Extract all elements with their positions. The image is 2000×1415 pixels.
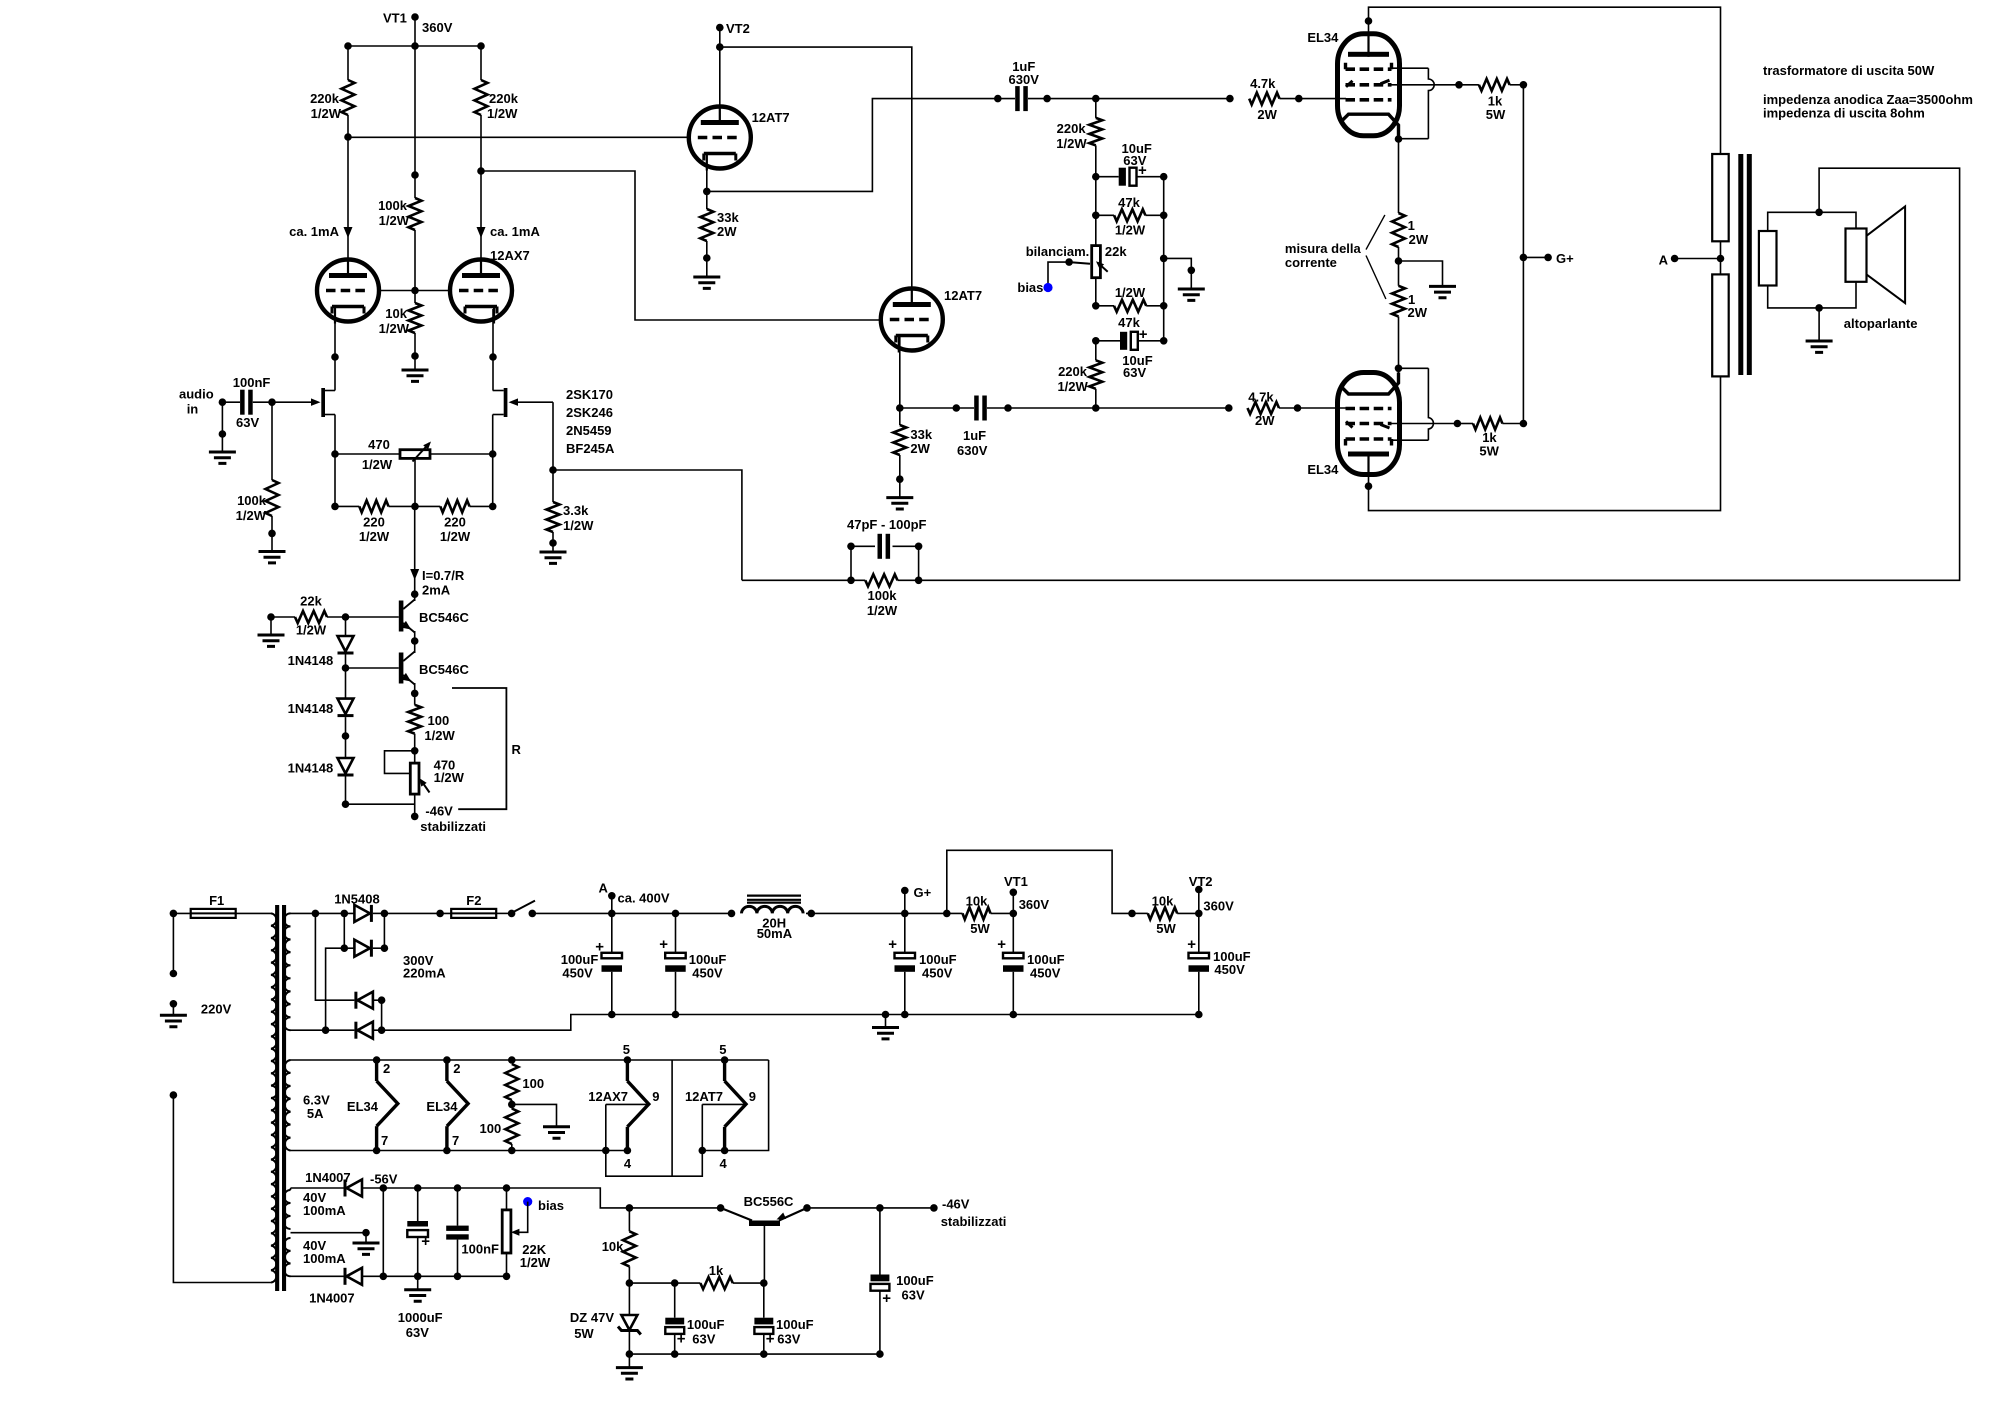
node loop-rail left: [602, 1147, 610, 1155]
wire to EL34-2 g1: [1298, 407, 1347, 409]
node G+ takeoff: [1520, 254, 1528, 262]
svg-text:audio: audio: [179, 387, 214, 402]
resistor 220k right: [480, 46, 482, 80]
svg-text:BF245A: BF245A: [566, 441, 615, 456]
svg-text:12AX7: 12AX7: [490, 248, 530, 263]
wire g2 lower: [1392, 423, 1458, 425]
node G+ psu: [901, 910, 909, 918]
svg-text:+: +: [997, 936, 1006, 953]
svg-text:1/2W: 1/2W: [362, 457, 393, 472]
svg-text:22k: 22k: [300, 594, 322, 609]
svg-text:I=0.7/R: I=0.7/R: [422, 568, 465, 583]
JFET 2SK170 right: [504, 388, 508, 417]
wire 12AT7-2 cathode: [899, 337, 901, 408]
svg-text:100: 100: [522, 1076, 544, 1091]
svg-text:+: +: [766, 1331, 775, 1348]
OPT core: [1738, 154, 1743, 375]
node g2-1k lower: [1454, 420, 1462, 428]
svg-text:BC546C: BC546C: [419, 662, 469, 677]
svg-text:1/2W: 1/2W: [359, 529, 390, 544]
node zener bottom: [626, 1350, 634, 1358]
resistor 220 right: [440, 500, 469, 512]
svg-text:1uF: 1uF: [963, 428, 986, 443]
wire fb right: [918, 546, 920, 580]
node EL34-1 anode: [1365, 17, 1373, 25]
wire secondary top: [1768, 212, 1856, 231]
diode 1N5408 D1: [354, 905, 370, 922]
capacitor 100uF 63V output: [876, 1204, 884, 1212]
OPT primary upper: [1712, 154, 1729, 241]
OPT primary lower: [1712, 274, 1729, 376]
svg-text:1N4148: 1N4148: [288, 701, 334, 716]
node 3.3k bottom: [549, 539, 557, 547]
wire 12AT7-1 anode: [719, 47, 721, 123]
wire VT2 feed: [719, 28, 721, 47]
ground bias network: [1164, 258, 1192, 270]
wire feedback takeoff: [553, 470, 742, 580]
wire winding center tap: [291, 1232, 367, 1234]
node speaker top: [1815, 209, 1823, 217]
svg-text:1/2W: 1/2W: [520, 1255, 551, 1270]
svg-text:12AX7: 12AX7: [588, 1089, 628, 1104]
node 10k bottom: [411, 352, 419, 360]
node sec top: [312, 910, 320, 918]
resistor 4.7k upper: [1249, 93, 1279, 105]
svg-text:470: 470: [368, 437, 390, 452]
svg-text:360V: 360V: [1019, 897, 1050, 912]
node base: [760, 1279, 768, 1287]
svg-text:63V: 63V: [902, 1288, 925, 1303]
svg-text:450V: 450V: [1030, 966, 1061, 981]
svg-text:1/2W: 1/2W: [236, 508, 267, 523]
node loop-rail right: [699, 1147, 707, 1155]
wire bias tap: [1048, 262, 1069, 287]
terminal mains top: [170, 910, 178, 918]
svg-text:1/2W: 1/2W: [563, 518, 594, 533]
svg-text:bias: bias: [1017, 280, 1043, 295]
node -46V in: [411, 813, 419, 821]
svg-text:2SK246: 2SK246: [566, 405, 613, 420]
svg-text:1N4148: 1N4148: [288, 653, 334, 668]
svg-text:100k: 100k: [237, 493, 267, 508]
svg-text:2W: 2W: [1408, 305, 1428, 320]
svg-text:2W: 2W: [1409, 232, 1429, 247]
resistor 1 2W upper: [1392, 213, 1405, 247]
svg-text:VT1: VT1: [1004, 874, 1028, 889]
callout lines: [1366, 215, 1385, 250]
choke 20H 50mA: [742, 906, 804, 913]
wire upper coupling rail: [1047, 98, 1230, 100]
resistor 1 2W lower: [1398, 261, 1400, 286]
svg-text:1/2W: 1/2W: [440, 529, 471, 544]
svg-text:1/2W: 1/2W: [1056, 136, 1087, 151]
svg-text:+: +: [888, 936, 897, 953]
wire negative return rail: [382, 1015, 1199, 1031]
triode 12AT7 second: [881, 289, 943, 351]
svg-text:2: 2: [383, 1061, 390, 1076]
svg-text:BC556C: BC556C: [744, 1194, 794, 1209]
resistor 100 emitter: [414, 693, 416, 704]
resistor 100 humdinger lower: [511, 1104, 513, 1108]
wire pin9 loop left: [606, 1104, 703, 1176]
svg-text:5W: 5W: [1479, 444, 1499, 459]
svg-text:630V: 630V: [1009, 72, 1040, 87]
ground heater center: [543, 1127, 570, 1138]
wire feedback long: [919, 168, 1960, 580]
svg-text:bilanciam.: bilanciam.: [1026, 244, 1090, 259]
svg-text:VT2: VT2: [1189, 874, 1213, 889]
svg-text:5A: 5A: [307, 1106, 324, 1121]
heater EL34 first: [373, 1056, 381, 1064]
fuse F1: [173, 912, 190, 914]
svg-text:10k: 10k: [602, 1239, 624, 1254]
node EL34-2 anode: [1365, 482, 1373, 490]
svg-text:4: 4: [624, 1156, 632, 1171]
svg-text:47k: 47k: [1118, 195, 1140, 210]
node Q2 emitter: [411, 690, 419, 698]
heater winding 6.3V: [284, 1060, 290, 1151]
capacitor 100uF-450V no1: [611, 913, 613, 952]
node humdinger mid: [508, 1101, 516, 1109]
svg-text:+: +: [1187, 936, 1196, 953]
svg-text:63V: 63V: [1123, 365, 1146, 380]
wire heater rail bottom right: [700, 1060, 769, 1151]
wire heater rail bottom left: [291, 1150, 632, 1152]
svg-text:100uF: 100uF: [896, 1273, 934, 1288]
wire 12AT7 pin9: [702, 1103, 746, 1105]
transformer primary winding: [271, 913, 277, 1282]
capacitor 100uF-450V no5: [1198, 913, 1200, 952]
svg-text:1: 1: [1408, 218, 1415, 233]
wire 470 bottom rail: [346, 803, 415, 805]
node audio input: [219, 398, 227, 406]
capacitor 47pF-100pF feedback: [847, 543, 855, 551]
svg-text:12AT7: 12AT7: [752, 110, 790, 125]
node D1 out: [373, 912, 385, 914]
wire mains return: [173, 1095, 271, 1282]
JFET 2SK170 left: [321, 388, 325, 417]
wire grid rail: [379, 290, 450, 292]
node speaker bottom: [1815, 304, 1823, 312]
svg-text:100uF: 100uF: [687, 1317, 725, 1332]
svg-text:12AT7: 12AT7: [944, 288, 982, 303]
resistor 10k bias: [626, 1204, 634, 1212]
resistor 3.3k: [552, 402, 554, 502]
diode 1N4007 lower: [291, 1275, 344, 1277]
svg-text:220k: 220k: [1058, 364, 1088, 379]
resistor 100k gate: [271, 402, 273, 480]
wire source rail: [335, 505, 359, 507]
ground under 100k: [271, 533, 273, 551]
svg-text:misura della: misura della: [1285, 241, 1362, 256]
ground zener: [628, 1354, 630, 1368]
svg-text:100nF: 100nF: [233, 375, 271, 390]
svg-text:2W: 2W: [910, 441, 930, 456]
svg-text:1/2W: 1/2W: [434, 770, 465, 785]
resistor 10k 5W second: [1148, 907, 1177, 919]
switch: [496, 912, 511, 914]
capacitor 1uF upper: [998, 98, 1015, 100]
svg-text:ca. 1mA: ca. 1mA: [490, 224, 540, 239]
node after 1uF: [1028, 98, 1047, 100]
resistor 1k bias: [700, 1277, 732, 1289]
svg-text:63V: 63V: [406, 1325, 429, 1340]
ground under 33k-2: [899, 479, 901, 497]
capacitor 10uF lower: [1092, 337, 1100, 345]
node VT1: [411, 13, 419, 21]
ground winding tap: [365, 1233, 367, 1243]
node cathode-g3 lower: [1395, 365, 1403, 373]
svg-text:in: in: [187, 402, 199, 417]
capacitor 100uF-450V no3: [904, 913, 906, 952]
resistor 220k bias lower: [1095, 341, 1097, 361]
wire B+ rail 12AX7: [348, 45, 481, 47]
svg-text:220mA: 220mA: [403, 966, 446, 981]
bracket R: [452, 688, 506, 809]
wire OPT center tap: [1720, 241, 1722, 274]
svg-text:1/2W: 1/2W: [1115, 285, 1146, 300]
transformer core: [275, 905, 279, 1291]
node ground branch: [1160, 255, 1168, 263]
secondary HV winding 300V: [284, 913, 290, 1030]
ground speaker: [1818, 308, 1820, 341]
transistor BC556C: [717, 1204, 725, 1212]
svg-text:corrente: corrente: [1285, 255, 1337, 270]
svg-text:+: +: [677, 1331, 686, 1348]
node 100k bottom: [268, 530, 276, 538]
svg-text:2W: 2W: [1255, 413, 1275, 428]
svg-text:4.7k: 4.7k: [1250, 76, 1276, 91]
resistor 33k second: [899, 408, 901, 425]
terminal earth: [170, 1000, 178, 1008]
svg-text:bias: bias: [538, 1198, 564, 1213]
svg-text:100nF: 100nF: [461, 1242, 499, 1257]
svg-text:9: 9: [652, 1089, 659, 1104]
svg-text:ca. 1mA: ca. 1mA: [289, 224, 339, 239]
wire 12AT7-1 cathode: [706, 155, 708, 191]
svg-text:1/2W: 1/2W: [311, 106, 342, 121]
wire bias ground rail: [629, 1353, 880, 1355]
resistor 100 humdinger upper: [508, 1056, 516, 1064]
svg-text:100uF: 100uF: [776, 1317, 814, 1332]
svg-text:stabilizzati: stabilizzati: [420, 819, 486, 834]
diode 1N5408 D3: [354, 992, 357, 1009]
wire top rail drop: [671, 1060, 673, 1176]
triode 12AX7 left: [317, 260, 379, 322]
ground cathode sense: [1399, 261, 1443, 286]
svg-text:5W: 5W: [970, 921, 990, 936]
wire lower coupling rail: [900, 407, 974, 409]
svg-text:impedenza di uscita 8ohm: impedenza di uscita 8ohm: [1763, 106, 1925, 121]
svg-text:5W: 5W: [1156, 921, 1176, 936]
svg-text:50mA: 50mA: [757, 926, 793, 941]
capacitor 10uF upper: [1096, 176, 1119, 178]
heater 12AX7: [624, 1056, 632, 1064]
svg-text:A: A: [1659, 253, 1669, 268]
node bias (blue): [1043, 283, 1052, 292]
svg-text:1000uF: 1000uF: [398, 1310, 443, 1325]
trimmer 22k bilanciam.: [1095, 177, 1097, 246]
wire right column: [1163, 177, 1165, 341]
svg-text:1/2W: 1/2W: [379, 213, 410, 228]
wire VT2 jumper: [947, 850, 1132, 913]
node zener top: [626, 1279, 634, 1287]
wire screen rail G+: [1522, 85, 1524, 424]
resistor 33k first: [706, 191, 708, 209]
trimmer 470 tail: [414, 751, 416, 763]
svg-text:100mA: 100mA: [303, 1251, 346, 1266]
wire anode to OPT top: [1369, 7, 1721, 154]
svg-text:100k: 100k: [378, 198, 408, 213]
resistor 10k 5W first: [963, 907, 991, 919]
svg-text:2W: 2W: [1257, 107, 1277, 122]
wire EL34-2 cathode: [1398, 368, 1400, 382]
pentode EL34 lower: [1338, 373, 1400, 475]
resistor 1k 5W upper: [1479, 79, 1510, 91]
svg-text:1N4007: 1N4007: [309, 1291, 355, 1306]
node 100-470: [411, 747, 419, 755]
resistor 4.7k lower: [1248, 402, 1280, 414]
svg-text:2N5459: 2N5459: [566, 423, 612, 438]
resistor 220k left: [347, 46, 349, 80]
svg-text:7: 7: [381, 1133, 388, 1148]
svg-text:360V: 360V: [1203, 899, 1234, 914]
ground under 3.3k: [552, 543, 554, 552]
svg-text:47pF - 100pF: 47pF - 100pF: [847, 517, 927, 532]
wire Q2 base: [346, 667, 399, 669]
current arrow ca.1mA right: [477, 227, 486, 238]
pentode EL34 upper: [1338, 34, 1400, 136]
fuse F2: [384, 912, 451, 914]
resistor 47k lower: [1096, 305, 1114, 307]
svg-text:1/2W: 1/2W: [1057, 379, 1088, 394]
svg-text:63V: 63V: [777, 1332, 800, 1347]
svg-text:12AT7: 12AT7: [685, 1089, 723, 1104]
wire heater rail top: [291, 1059, 769, 1061]
diode 1N4148 D3: [345, 736, 347, 758]
wire diode join: [382, 1188, 384, 1276]
wire g3 tie lower: [1392, 439, 1429, 441]
node screen rail bottom: [1520, 420, 1528, 428]
svg-text:3.3k: 3.3k: [563, 503, 589, 518]
svg-text:5: 5: [719, 1042, 726, 1057]
wire EL34-2 anode to OPT: [1369, 377, 1721, 511]
node cathode 1: [703, 188, 711, 196]
bias winding 40V lower: [284, 1238, 290, 1276]
node A psu: [608, 910, 616, 918]
wire VT1 to rail: [414, 17, 416, 46]
wire to node A: [532, 912, 612, 914]
node diode chain top: [342, 613, 350, 621]
svg-text:100mA: 100mA: [303, 1203, 346, 1218]
svg-text:100: 100: [428, 713, 450, 728]
svg-text:220k: 220k: [1057, 121, 1087, 136]
diode 1N4148 D1: [345, 617, 347, 636]
wire 12AX7 pin9: [606, 1103, 649, 1105]
node after 1uF lower: [987, 407, 1008, 409]
svg-text:G+: G+: [1556, 251, 1574, 266]
svg-text:33k: 33k: [717, 210, 739, 225]
node 47k2 left: [1092, 302, 1100, 310]
node 10k2 in: [1128, 910, 1136, 918]
svg-text:-46V: -46V: [942, 1197, 970, 1212]
svg-text:1/2W: 1/2W: [867, 603, 898, 618]
wire -46V rail: [803, 1204, 811, 1212]
capacitor 1uF lower: [974, 396, 979, 421]
wire right cathode to JFET drain: [492, 309, 494, 391]
svg-text:A: A: [599, 881, 609, 896]
wire left cathode to JFET drain: [334, 309, 336, 391]
current arrow I=0.7/R: [410, 569, 419, 580]
node screen rail top: [1520, 81, 1528, 89]
svg-text:63V: 63V: [1123, 153, 1146, 168]
resistor 1k 5W lower: [1457, 423, 1473, 425]
node -56V: [380, 1184, 388, 1192]
wire to EL34-1 g1: [1299, 98, 1346, 100]
svg-text:450V: 450V: [922, 966, 953, 981]
svg-text:+: +: [882, 1290, 891, 1307]
wire gate left JFET: [272, 401, 312, 403]
wire to 12AT7-2 grid: [481, 171, 881, 320]
node Q1 collector: [411, 590, 419, 598]
ground under 10k: [414, 356, 416, 370]
speaker altoparlante: [1846, 229, 1867, 282]
svg-text:220k: 220k: [489, 91, 519, 106]
wiper 22k: [1069, 262, 1090, 264]
node before 1uF: [994, 95, 1002, 103]
svg-text:+: +: [595, 939, 604, 956]
svg-text:VT2: VT2: [726, 21, 750, 36]
terminal -46V out: [930, 1204, 938, 1212]
svg-text:1/2W: 1/2W: [424, 728, 455, 743]
svg-text:450V: 450V: [1214, 962, 1245, 977]
node VT2 psu: [1195, 910, 1203, 918]
svg-text:1k: 1k: [709, 1263, 724, 1278]
wire G+ to 10k: [905, 912, 963, 914]
resistor 47k upper: [1092, 212, 1100, 220]
node bias chain top: [1092, 173, 1100, 181]
svg-text:10k: 10k: [385, 306, 407, 321]
bias winding 40V upper: [284, 1190, 290, 1229]
node VT1 psu: [1010, 910, 1018, 918]
diode 1N4148 D2: [345, 668, 347, 699]
wire fb left: [850, 546, 852, 580]
capacitor 100uF-450V no4: [1012, 913, 1014, 952]
svg-text:100: 100: [479, 1121, 501, 1136]
wire base lead: [763, 1226, 765, 1283]
svg-text:33k: 33k: [910, 427, 932, 442]
svg-text:EL34: EL34: [426, 1099, 458, 1114]
node right anode: [477, 167, 485, 175]
resistor 100k plate: [414, 46, 416, 198]
svg-text:+: +: [421, 1233, 430, 1250]
ground 22k: [270, 617, 272, 635]
terminal mains bottom: [170, 1091, 178, 1099]
capacitor 100nF input: [222, 401, 240, 403]
node 33k-2 bottom: [896, 475, 904, 483]
diode 1N4007 upper: [290, 1188, 292, 1190]
ground psu main: [882, 1011, 890, 1019]
wire cathode to coupling: [707, 99, 998, 192]
svg-text:630V: 630V: [957, 443, 988, 458]
trimmer 22K bias: [503, 1184, 511, 1192]
node diode join lower: [380, 1273, 388, 1281]
svg-text:63V: 63V: [692, 1332, 715, 1347]
wire gate right JFET: [517, 401, 553, 403]
svg-text:22k: 22k: [1105, 244, 1127, 259]
node g2-1k upper: [1455, 81, 1463, 89]
svg-text:BC546C: BC546C: [419, 610, 469, 625]
